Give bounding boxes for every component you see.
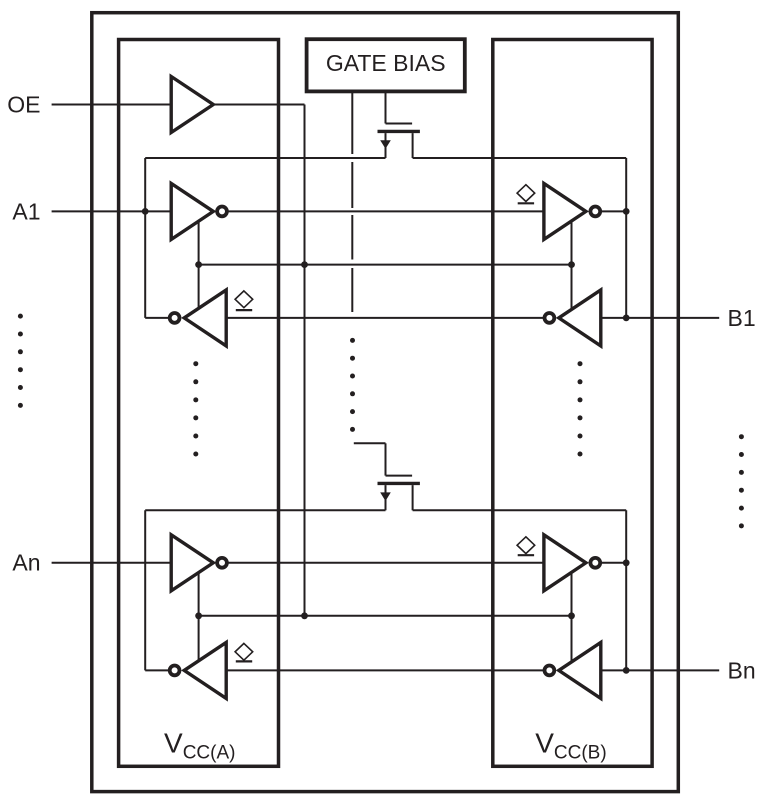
VCC(B) supply-domain box	[493, 40, 652, 767]
ellipsis dots left outside	[18, 314, 23, 408]
op-amp buffer Bn reverse	[559, 642, 601, 698]
wire B1 node vertical	[625, 158, 627, 318]
wire gate-bias vertical dashed segments	[351, 91, 353, 154]
wire OE input	[52, 104, 172, 106]
transistor Q2 gate bar	[378, 482, 420, 485]
wire An forward output row to B box	[222, 562, 544, 564]
svg-text:A1: A1	[12, 198, 40, 224]
op-amp buffer An forward	[171, 535, 213, 591]
wire An enable	[198, 573, 200, 661]
svg-text:GATE BIAS: GATE BIAS	[326, 50, 446, 76]
node Bn fwd-output junction	[623, 559, 630, 566]
wire Q1 channel B side	[413, 157, 627, 159]
wire A1 reverse-buffer output to node	[145, 317, 174, 319]
ellipsis dots right box	[578, 361, 583, 456]
svg-text:OE: OE	[7, 91, 40, 117]
transistor Q2 gate jog	[354, 442, 386, 444]
ellipsis dots right outside	[739, 434, 744, 528]
wire OE buffer output	[213, 104, 304, 106]
transistor Q1 gate feed	[385, 91, 387, 123]
transistor Q2 gate lead	[386, 475, 413, 477]
wire OE rail row 1	[199, 264, 571, 266]
node OE rail 1 at A enable	[195, 261, 202, 268]
transistor Q2 gate feed	[385, 443, 387, 475]
one-shot symbol An	[235, 643, 253, 661]
wire Bn input	[601, 669, 719, 671]
transistor Q2 source stub	[385, 485, 387, 510]
op-amp buffer A1 reverse	[184, 290, 226, 346]
ellipsis dots left box	[193, 361, 198, 456]
one-shot symbol B1	[517, 185, 535, 204]
op-amp buffer A1 forward	[171, 183, 213, 239]
wire Q1 channel A side	[145, 157, 385, 159]
wire Bn enable	[571, 573, 573, 663]
inverter bubble An forward	[217, 558, 227, 568]
node Bn junction	[623, 667, 630, 674]
op-amp buffer B1 forward	[544, 183, 586, 239]
inverter bubble Bn reverse	[545, 666, 555, 676]
wire Bn forward output to node	[595, 562, 626, 564]
GATE BIAS block U3	[307, 39, 465, 91]
wire Q2 channel A side	[145, 509, 385, 511]
inverter bubble B1 forward	[590, 207, 600, 217]
node B1 fwd-output junction	[623, 208, 630, 215]
wire An node vertical	[144, 510, 146, 670]
wire B1 enable	[571, 221, 573, 309]
svg-text:VCC(B): VCC(B)	[535, 728, 606, 764]
transistor Q2 arrow	[380, 492, 391, 501]
wire An reverse-buffer output to node	[145, 669, 174, 671]
svg-text:VCC(A): VCC(A)	[164, 728, 235, 764]
wire B1 input	[601, 317, 719, 319]
op-amp buffer B1 reverse	[559, 290, 601, 346]
one-shot symbol A1	[235, 291, 253, 310]
inverter bubble B1 reverse	[545, 313, 555, 323]
wire OE rail row 2	[199, 615, 571, 617]
op-amp buffer Bn forward	[544, 535, 586, 591]
op-amp buffer U-OE	[171, 77, 213, 133]
one-shot symbol Bn	[517, 537, 535, 555]
node OE rail 1 at B enable	[568, 261, 575, 268]
node A1 junction	[142, 208, 149, 215]
inverter bubble A1 forward	[217, 207, 227, 217]
ellipsis dots middle	[350, 338, 355, 432]
transistor Q1 source stub	[385, 133, 387, 158]
node B1 junction	[623, 315, 630, 322]
inverter bubble A1 reverse	[170, 313, 180, 323]
node OE rail 2 at OE vertical	[301, 612, 308, 619]
transistor Q2 drain stub	[412, 485, 414, 510]
wire A1 forward output row to B box	[222, 210, 544, 212]
wire A1 input	[52, 210, 172, 212]
inverter bubble An reverse	[170, 666, 180, 676]
wire Q2 channel B side	[413, 509, 627, 511]
svg-text:Bn: Bn	[728, 657, 756, 683]
transistor Q1 arrow	[380, 140, 391, 149]
node OE rail 1 at OE vertical	[301, 261, 308, 268]
inverter bubble Bn forward	[590, 558, 600, 568]
node OE rail 2 at B enable	[568, 612, 575, 619]
outer device border	[92, 13, 679, 792]
node OE rail 2 at A enable	[195, 612, 202, 619]
wire An input	[52, 562, 172, 564]
wire Bn node vertical	[625, 510, 627, 670]
svg-text:B1: B1	[728, 305, 756, 331]
wire B1 reverse path row	[226, 317, 549, 319]
transistor Q1 drain stub	[412, 133, 414, 158]
wire B1 forward output to node	[595, 210, 626, 212]
transistor Q1 gate bar	[378, 130, 420, 133]
wire A1 enable	[198, 221, 200, 308]
svg-text:An: An	[12, 550, 40, 576]
op-amp buffer An reverse	[184, 642, 226, 698]
VCC(A) supply-domain box	[119, 40, 279, 767]
wire Bn reverse path row	[226, 669, 549, 671]
wire OE distribution vertical	[304, 105, 306, 616]
wire A1 node vertical	[144, 158, 146, 318]
transistor Q1 gate lead	[386, 123, 413, 125]
